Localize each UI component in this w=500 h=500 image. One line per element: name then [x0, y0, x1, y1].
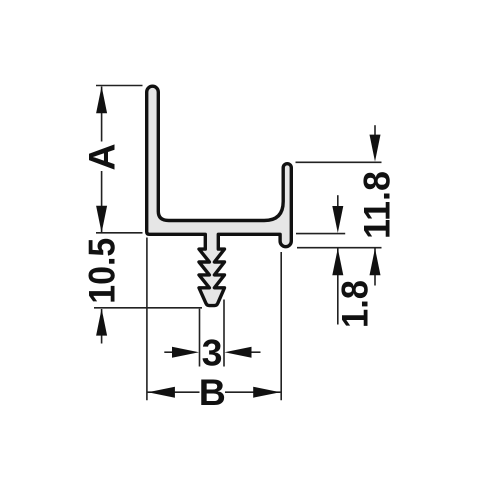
svg-text:3: 3 [202, 331, 223, 373]
svg-text:B: B [199, 371, 226, 413]
svg-text:10.5: 10.5 [81, 238, 123, 304]
svg-text:11.8: 11.8 [355, 171, 397, 239]
svg-text:1.8: 1.8 [334, 280, 376, 328]
svg-text:A: A [81, 143, 123, 170]
